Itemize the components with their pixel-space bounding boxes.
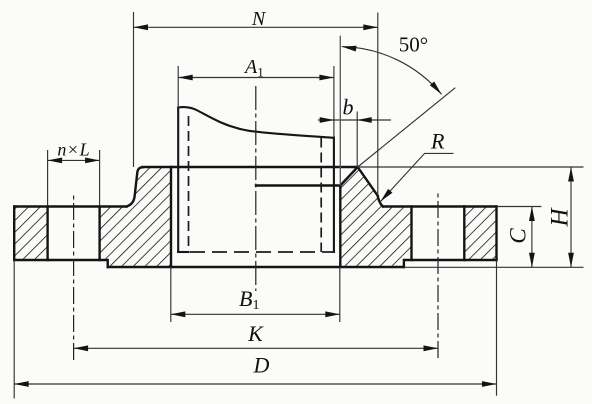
hub top face xyxy=(143,166,358,168)
hatch region left hub and plate xyxy=(100,167,171,267)
dimension D extension lines xyxy=(14,260,496,399)
bore wall right xyxy=(339,186,341,268)
centerline main axis xyxy=(255,86,257,291)
pipe end solid segment xyxy=(178,251,188,253)
dimension B1 extension lines xyxy=(171,267,340,322)
dimension N extension lines xyxy=(133,12,135,167)
leader R xyxy=(381,153,454,201)
pipe inner wall right hidden xyxy=(320,138,322,253)
svg-text:50°: 50° xyxy=(399,33,428,57)
centerline right bolt hole xyxy=(437,192,439,358)
hub left wall with taper and fillet xyxy=(127,167,143,206)
bolt hole right edge lines xyxy=(412,207,465,261)
50 deg angle arc xyxy=(342,47,442,95)
flange plate bottom right xyxy=(404,260,497,267)
pipe outer wall left xyxy=(177,108,179,253)
flange plate top line left xyxy=(14,205,126,207)
pipe break curve xyxy=(178,107,334,138)
flange plate bottom left xyxy=(14,260,108,267)
50 deg angle leg diagonal bevel extension xyxy=(358,88,456,167)
dimension n x L extension lines xyxy=(48,150,100,205)
svg-text:R: R xyxy=(430,129,445,154)
centerline left bolt hole xyxy=(73,192,75,360)
hatch region left outer plate xyxy=(14,207,47,261)
weld bevel face 50 deg xyxy=(358,167,378,196)
svg-text:D: D xyxy=(253,353,270,378)
svg-text:b: b xyxy=(343,95,354,120)
svg-text:H: H xyxy=(547,207,574,228)
dimension A1 line xyxy=(178,77,334,79)
svg-text:C: C xyxy=(506,228,531,244)
weld surface line xyxy=(256,167,358,186)
dimension b line with outside arrows xyxy=(318,119,391,121)
flange plate right edge xyxy=(495,207,497,261)
dimension B1 line xyxy=(171,313,340,315)
flange plate top line right xyxy=(383,205,497,207)
pipe inner wall left hidden xyxy=(188,116,190,252)
50 deg angle leg vertical xyxy=(339,36,341,186)
svg-text:K: K xyxy=(247,321,264,346)
dimension D line xyxy=(14,383,496,385)
dimension K line xyxy=(74,347,438,349)
dimension H line xyxy=(570,167,572,267)
hatch region right hub and plate xyxy=(340,167,411,267)
dimension b extension line right xyxy=(356,112,358,168)
svg-text:N: N xyxy=(251,8,267,30)
flange plate left edge xyxy=(13,207,15,261)
bore wall left xyxy=(170,167,172,267)
dimension C extension line xyxy=(497,206,542,208)
dimension H extension lines xyxy=(358,167,584,267)
bolt hole left edge lines xyxy=(48,207,100,261)
fillet R at bevel bottom xyxy=(378,196,383,207)
raised face bottom xyxy=(108,266,404,268)
dimension A1 extension lines xyxy=(178,66,334,138)
dimension n x L line xyxy=(48,159,100,161)
dimension N line xyxy=(134,26,378,28)
dimension C line xyxy=(531,207,533,268)
pipe end hidden line xyxy=(190,251,334,253)
svg-text:n×L: n×L xyxy=(57,140,89,160)
hatch region right outer plate xyxy=(464,207,496,261)
pipe outer wall right xyxy=(333,138,335,253)
